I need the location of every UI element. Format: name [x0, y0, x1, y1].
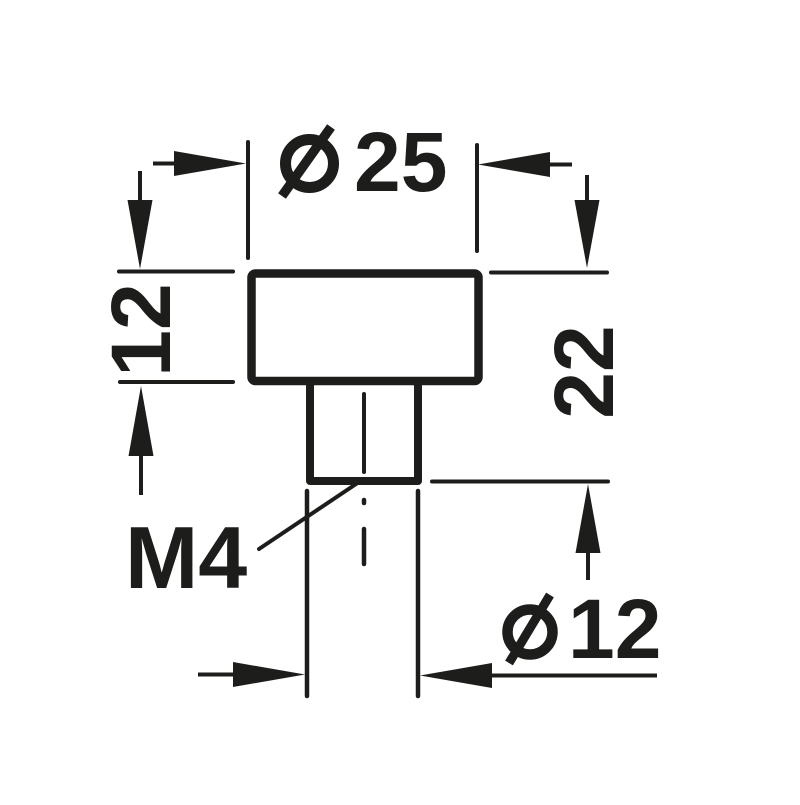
dim Ø25 right extension line — [475, 145, 479, 251]
dim Ø25 left arrow — [153, 162, 190, 166]
dim 22 down arrow — [585, 175, 589, 205]
svg-text:22: 22 — [537, 325, 631, 418]
dim Ø25 left extension line — [246, 142, 250, 258]
thread leader line — [259, 482, 359, 549]
dim 22 bottom reference line — [432, 480, 608, 484]
svg-text:M4: M4 — [125, 508, 247, 607]
centerline dash-dot (below neck) — [362, 500, 367, 503]
centerline solid (inside neck) — [362, 394, 366, 472]
dim Ø12 diameter symbol — [508, 595, 553, 663]
dim 22 top reference line — [491, 271, 607, 275]
dim 22 up arrow — [586, 548, 590, 580]
dim 12 down arrow — [138, 171, 142, 206]
dim 12 top reference line — [119, 270, 233, 274]
dim 12 up arrow — [139, 450, 143, 495]
knob neck outline — [310, 380, 418, 481]
dim Ø25 diameter symbol — [282, 127, 334, 196]
dim 12 bottom reference line — [120, 380, 233, 384]
svg-text:12: 12 — [568, 582, 661, 676]
knob head outline — [252, 274, 479, 382]
dim Ø25 right arrow — [535, 163, 572, 167]
dim Ø12 left arrow — [198, 673, 240, 677]
svg-text:25: 25 — [354, 115, 447, 209]
dim Ø12 right arrow — [488, 674, 657, 678]
dim Ø12 left extension line — [305, 491, 310, 696]
dim Ø12 right extension line — [416, 491, 421, 696]
svg-text:12: 12 — [94, 283, 188, 376]
